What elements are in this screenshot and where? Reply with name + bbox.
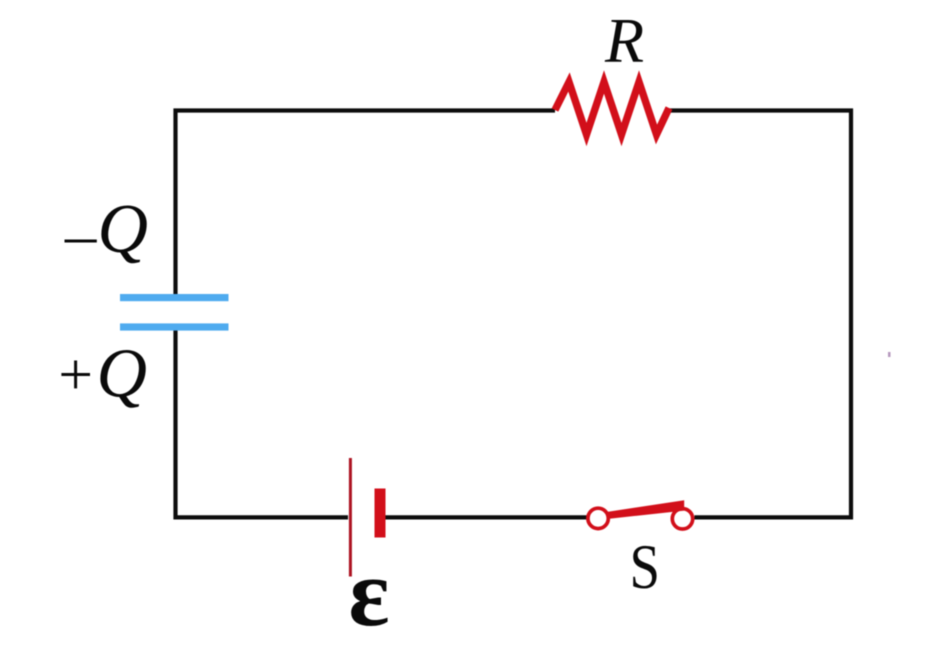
wire bottom-left and left-lower segment (capacitor bottom lead) (176, 330, 349, 517)
capacitor bottom plate (+Q) (120, 323, 229, 330)
speck artifact (888, 352, 891, 357)
svg-text:Q: Q (98, 191, 149, 268)
svg-text:S: S (630, 532, 661, 602)
label +Q (61, 336, 147, 413)
capacitor top plate (-Q) (120, 294, 229, 301)
svg-text:R: R (604, 5, 644, 76)
svg-text:ε: ε (349, 539, 390, 646)
label -Q (65, 191, 149, 268)
label S (630, 532, 661, 602)
switch left terminal (588, 508, 608, 528)
battery short plate (thick) (375, 489, 386, 538)
resistor R (555, 82, 669, 135)
wire top-left and left-upper segment (capacitor top lead) (176, 111, 556, 296)
wire bottom segment between switch and battery (385, 515, 587, 519)
wire top-right, right side and bottom-right segment (to switch right terminal) (670, 111, 852, 518)
label epsilon (EMF) (349, 539, 390, 646)
label R (604, 5, 644, 76)
svg-text:Q: Q (97, 336, 148, 413)
battery long plate (thin) (349, 458, 352, 577)
switch right terminal (672, 509, 692, 529)
switch blade (607, 500, 684, 519)
